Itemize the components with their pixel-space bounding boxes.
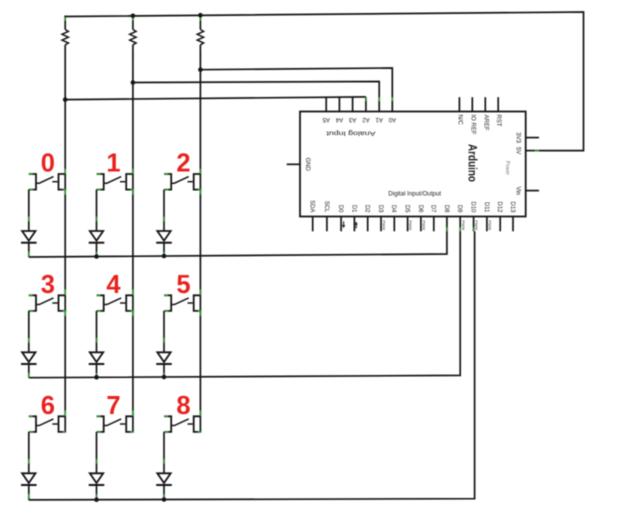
junction: diode D4 / row 2 wire xyxy=(94,375,99,380)
A0 pin connection (green) xyxy=(391,97,393,101)
svg-text:D12: D12 xyxy=(496,201,502,213)
junction: rail / R3 xyxy=(198,13,203,18)
wire: diode D3 to row 2 wire xyxy=(28,364,30,378)
svg-text:3: 3 xyxy=(41,271,55,299)
wire: button S2 to diode D2 xyxy=(163,190,165,231)
wire: diode D4 to row 2 wire xyxy=(96,364,98,377)
S1 pin4 (green) xyxy=(130,189,134,191)
junction: column 2 / A1 wire xyxy=(131,80,136,85)
svg-text:N/C: N/C xyxy=(456,115,462,126)
diode D7 xyxy=(90,473,103,483)
wire: rail to resistor R2 xyxy=(132,16,134,30)
wire: rail to resistor R1 xyxy=(64,16,66,30)
R2 bottom pin (green) xyxy=(132,54,134,58)
A1 pin connection (green) xyxy=(378,97,380,101)
junction: diode D8 / row 3 wire xyxy=(162,497,167,502)
diode D7 anode (green) xyxy=(96,459,98,464)
S4 pin1 (green) xyxy=(97,294,101,296)
S6 pin4 (green) xyxy=(63,431,67,433)
diode D8 xyxy=(157,473,170,483)
S0 pin1 (green) xyxy=(29,173,33,175)
S7 pin2 connection (green) xyxy=(132,411,134,416)
diode D5 cathode (green) xyxy=(163,373,165,378)
diode D0 xyxy=(22,231,35,241)
svg-text:Arduino: Arduino xyxy=(465,144,479,182)
svg-text:6: 6 xyxy=(41,392,55,420)
diode D7 cathode (green) xyxy=(96,494,98,499)
svg-text:D9: D9 xyxy=(456,205,462,213)
svg-text:PWM: PWM xyxy=(408,220,413,230)
svg-text:5: 5 xyxy=(176,271,190,299)
diode D4 xyxy=(90,352,103,362)
pin D7 xyxy=(433,217,435,232)
S5 pin3 (green) xyxy=(164,310,168,312)
svg-text:0: 0 xyxy=(41,150,55,178)
pin A1 xyxy=(378,97,380,111)
diode D1 anode (green) xyxy=(96,217,98,222)
wire: column 1 vertical (resistor to buttons) xyxy=(64,45,66,432)
column wire end green above S4 xyxy=(132,289,134,294)
S6 pin1 (green) xyxy=(29,415,33,417)
svg-text:PWM: PWM xyxy=(488,220,493,230)
pin SCL xyxy=(326,217,328,232)
svg-text:1: 1 xyxy=(106,150,120,178)
S6 pin2 connection (green) xyxy=(64,411,66,416)
svg-text:A4: A4 xyxy=(335,116,343,122)
svg-text:D6: D6 xyxy=(417,205,423,213)
wire: button S7 to diode D7 xyxy=(96,432,98,473)
S5 pin4 (green) xyxy=(198,310,202,312)
diode D0 anode (green) xyxy=(28,217,30,222)
S2 pin3 (green) xyxy=(164,189,168,191)
pushbutton S1 (key 1) xyxy=(97,174,104,190)
D10 pin connection (green) xyxy=(473,227,475,231)
svg-text:AREF: AREF xyxy=(482,115,488,131)
svg-text:A2: A2 xyxy=(362,116,370,122)
svg-text:GND: GND xyxy=(304,158,310,172)
pin AREF xyxy=(484,97,486,111)
pin D6 xyxy=(420,217,422,232)
svg-text:D4: D4 xyxy=(390,205,396,213)
pin Vin xyxy=(526,190,539,192)
wire: diode D6 to row 3 wire xyxy=(28,485,30,500)
svg-text:D13: D13 xyxy=(509,201,515,213)
S2 pin4 (green) xyxy=(198,189,202,191)
wire: rail to resistor R3 xyxy=(199,16,201,30)
pin D4 xyxy=(393,217,395,232)
svg-text:PWM: PWM xyxy=(461,220,466,230)
pin D12 xyxy=(499,217,501,232)
svg-text:Analog Input: Analog Input xyxy=(326,130,375,137)
column wire end green below S5 xyxy=(199,311,201,316)
icon: RX arrow at D0 xyxy=(343,221,345,225)
column wire end green above S6 xyxy=(64,410,66,415)
S3 pin2 connection (green) xyxy=(64,290,66,295)
S7 pin1 (green) xyxy=(97,415,101,417)
junction: diode D5 / row 2 wire xyxy=(162,375,167,380)
svg-text:5V: 5V xyxy=(514,147,520,154)
pin D1 xyxy=(353,217,355,232)
S3 pin3 (green) xyxy=(29,310,33,312)
S7 pin3 (green) xyxy=(97,431,101,433)
pushbutton S7 (key 7) xyxy=(97,416,104,432)
pin D9 xyxy=(459,217,461,232)
diode D1 xyxy=(90,231,103,241)
S8 pin3 (green) xyxy=(164,431,168,433)
diode D6 anode (green) xyxy=(28,459,30,464)
svg-text:D2: D2 xyxy=(364,205,370,213)
pin A5 xyxy=(325,97,327,111)
wire: button S8 to diode D8 xyxy=(163,432,165,473)
S8 pin4 (green) xyxy=(198,431,202,433)
R2 top pin (green) xyxy=(132,17,134,21)
pin A2 xyxy=(365,97,367,111)
diode D2 xyxy=(157,231,170,241)
column wire end green below S1 xyxy=(132,190,134,195)
diode D2 cathode (green) xyxy=(163,252,165,257)
wire: button S5 to diode D5 xyxy=(163,311,165,352)
S6 pin3 (green) xyxy=(29,431,33,433)
junction: column 1 / A2 wire xyxy=(63,97,68,102)
pushbutton S5 (key 5) xyxy=(164,295,171,311)
S5 pin2 connection (green) xyxy=(199,290,201,295)
wire: diode D8 to row 3 wire xyxy=(163,485,165,500)
S4 pin3 (green) xyxy=(97,310,101,312)
R1 bottom pin (green) xyxy=(64,54,66,58)
wire: diode D1 to row 1 wire xyxy=(96,243,98,257)
column wire end green above S8 xyxy=(199,410,201,415)
wire: row 3 to Arduino pin D10 xyxy=(29,231,475,500)
wire: diode D0 to row 1 wire xyxy=(28,243,30,257)
diode D5 anode (green) xyxy=(163,338,165,343)
pushbutton S2 (key 2) xyxy=(164,174,171,190)
svg-text:D0: D0 xyxy=(337,205,343,213)
pushbutton S0 (key 0) xyxy=(29,174,36,190)
wire: diode D2 to row 1 wire xyxy=(163,243,165,256)
pin IO REF xyxy=(471,97,473,111)
diode D4 anode (green) xyxy=(96,338,98,343)
R3 bottom pin (green) xyxy=(199,54,201,58)
wire: column 3 vertical (resistor to buttons) xyxy=(199,45,201,432)
svg-text:2: 2 xyxy=(176,150,190,178)
junction: diode D7 / row 3 wire xyxy=(94,497,99,502)
column wire end green below S4 xyxy=(132,311,134,316)
D8 pin connection (green) xyxy=(446,227,448,231)
S4 pin2 connection (green) xyxy=(132,290,134,295)
pin GND xyxy=(287,163,300,165)
pin D13 xyxy=(512,217,514,232)
S0 pin2 connection (green) xyxy=(64,169,66,174)
diode D5 xyxy=(157,352,170,362)
diode D4 cathode (green) xyxy=(96,373,98,378)
diode D8 cathode (green) xyxy=(163,494,165,499)
wire: column 2 vertical (resistor to buttons) xyxy=(132,45,134,432)
svg-text:IO REF: IO REF xyxy=(469,115,475,135)
svg-text:D11: D11 xyxy=(483,202,489,213)
svg-text:PWM: PWM xyxy=(422,220,427,230)
pin D11 xyxy=(486,217,488,232)
pin 3V3 xyxy=(526,137,539,139)
diode D3 anode (green) xyxy=(28,338,30,343)
diode D6 cathode (green) xyxy=(28,494,30,499)
svg-text:D10: D10 xyxy=(470,201,476,213)
A2 pin connection (green) xyxy=(365,97,367,101)
diode D2 anode (green) xyxy=(163,217,165,222)
wire: button S0 to diode D0 xyxy=(28,190,30,231)
D9 pin connection (green) xyxy=(459,227,461,231)
junction: diode D2 / row 1 wire xyxy=(162,254,167,259)
R1 top pin (green) xyxy=(64,17,66,21)
S0 pin4 (green) xyxy=(63,189,67,191)
pin D8 xyxy=(446,217,448,232)
svg-text:3V3: 3V3 xyxy=(514,132,520,143)
S8 pin2 connection (green) xyxy=(199,411,201,416)
column wire end green below S0 xyxy=(64,190,66,195)
svg-text:7: 7 xyxy=(106,392,120,420)
diode D3 cathode (green) xyxy=(28,373,30,378)
wire: diode D5 to row 2 wire xyxy=(163,364,165,377)
wire: button S3 to diode D3 xyxy=(28,311,30,352)
resistor R2 xyxy=(130,30,136,45)
S5 pin1 (green) xyxy=(164,294,168,296)
column wire end green below S2 xyxy=(199,190,201,195)
pin D10 xyxy=(473,217,475,232)
pushbutton S4 (key 4) xyxy=(97,295,104,311)
pin D0 xyxy=(340,217,342,232)
svg-text:Vin: Vin xyxy=(514,186,520,195)
pushbutton S3 (key 3) xyxy=(29,295,36,311)
pin D5 xyxy=(407,217,409,232)
svg-text:PWM: PWM xyxy=(474,220,479,230)
svg-text:Power: Power xyxy=(504,161,510,176)
svg-text:D5: D5 xyxy=(404,205,410,213)
wire: button S4 to diode D4 xyxy=(96,311,98,352)
junction: column 3 / A0 wire xyxy=(198,67,203,72)
wire: row 2 to Arduino pin D9 xyxy=(29,231,460,377)
diode D6 xyxy=(22,473,35,483)
svg-text:SCL: SCL xyxy=(323,201,329,213)
svg-text:4: 4 xyxy=(106,271,121,299)
Arduino U1 body xyxy=(300,112,526,217)
svg-text:D3: D3 xyxy=(377,205,383,213)
resistor R1 xyxy=(62,30,68,45)
pin A3 xyxy=(352,97,354,111)
junction: diode D1 / row 1 wire xyxy=(94,254,99,259)
column wire end green above S3 xyxy=(64,289,66,294)
wire: column 2 to Arduino pin A1 xyxy=(133,82,379,98)
column wire end green above S5 xyxy=(199,289,201,294)
S4 pin4 (green) xyxy=(130,310,134,312)
diode D3 xyxy=(22,352,35,362)
wire: diode D7 to row 3 wire xyxy=(96,485,98,500)
svg-text:RST: RST xyxy=(495,115,501,127)
pin SDA xyxy=(312,217,314,232)
R3 top pin (green) xyxy=(199,17,201,21)
S8 pin1 (green) xyxy=(164,415,168,417)
svg-text:D7: D7 xyxy=(430,205,436,213)
svg-text:A3: A3 xyxy=(348,116,356,122)
pushbutton S6 (key 6) xyxy=(29,416,36,432)
svg-text:8: 8 xyxy=(176,392,190,420)
svg-text:PWM: PWM xyxy=(382,220,387,230)
S2 pin1 (green) xyxy=(164,173,168,175)
svg-text:A1: A1 xyxy=(375,116,383,122)
svg-text:A0: A0 xyxy=(388,116,396,122)
pin A4 xyxy=(338,97,340,111)
wire: row 1 to Arduino pin D8 xyxy=(29,231,447,257)
svg-text:Digital Input/Output: Digital Input/Output xyxy=(388,191,441,198)
S3 pin1 (green) xyxy=(29,294,33,296)
S2 pin2 connection (green) xyxy=(199,169,201,174)
S1 pin3 (green) xyxy=(97,189,101,191)
column wire end green above S7 xyxy=(132,410,134,415)
wire: column 3 to Arduino pin A0 xyxy=(200,68,392,97)
5V pin connection (green) xyxy=(535,150,540,152)
wire: button S6 to diode D6 xyxy=(28,432,30,473)
wire: button S1 to diode D1 xyxy=(96,190,98,231)
junction: rail / R2 xyxy=(131,14,136,19)
pin 5V xyxy=(526,150,539,152)
pin RST xyxy=(497,97,499,111)
S1 pin2 connection (green) xyxy=(132,169,134,174)
wire: 5V top rail from resistors to Arduino 5V pin xyxy=(65,12,583,151)
pin D2 xyxy=(367,217,369,232)
diode D1 cathode (green) xyxy=(96,252,98,257)
icon: TX arrow at D1 xyxy=(355,225,357,229)
svg-text:SDA: SDA xyxy=(309,200,315,212)
wire: column 1 to Arduino pin A2 xyxy=(65,97,366,100)
S0 pin3 (green) xyxy=(29,189,33,191)
diode D0 cathode (green) xyxy=(28,252,30,257)
pushbutton S8 (key 8) xyxy=(164,416,171,432)
S3 pin4 (green) xyxy=(63,310,67,312)
S7 pin4 (green) xyxy=(130,431,134,433)
pin N/C xyxy=(458,97,460,111)
resistor R3 xyxy=(197,30,203,45)
pin D3 xyxy=(380,217,382,232)
svg-text:D8: D8 xyxy=(443,205,449,213)
column wire end green below S3 xyxy=(64,311,66,316)
pin A0 xyxy=(391,97,393,111)
svg-text:A5: A5 xyxy=(322,116,330,122)
diode D8 anode (green) xyxy=(163,459,165,464)
S1 pin1 (green) xyxy=(97,173,101,175)
svg-text:D1: D1 xyxy=(350,205,356,213)
